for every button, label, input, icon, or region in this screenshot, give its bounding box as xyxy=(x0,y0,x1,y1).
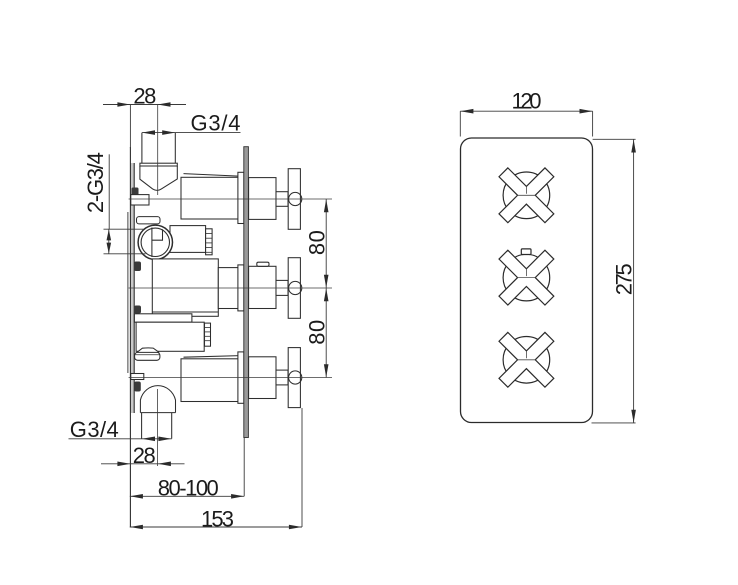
bottom outlet pipe xyxy=(141,413,143,439)
thermostat cap xyxy=(137,217,161,224)
lower ribbed adapter xyxy=(205,323,211,346)
top pipe centerline xyxy=(157,105,159,196)
lower connector block xyxy=(136,322,204,351)
plate stud screws xyxy=(132,188,142,392)
lower pivot hump xyxy=(137,348,159,353)
row-2 handle hub circle xyxy=(289,281,302,294)
dim G3/4 top leader xyxy=(142,130,241,135)
dimension texts left view xyxy=(70,84,330,532)
handle cross bottom xyxy=(499,332,554,387)
row centerlines xyxy=(129,199,332,378)
handle cross middle xyxy=(499,249,554,305)
dim 80-100 xyxy=(130,438,244,499)
svg-text:275: 275 xyxy=(612,263,637,295)
wall mounting plate (edge-on) xyxy=(128,147,134,528)
dim 80/80 vertical xyxy=(324,199,329,378)
thermostat housing xyxy=(170,226,206,253)
dimension texts right view xyxy=(512,88,637,295)
svg-text:80: 80 xyxy=(305,230,330,255)
svg-text:28: 28 xyxy=(133,443,156,468)
bottom outlet elbow dome xyxy=(140,386,175,413)
top inlet pipe xyxy=(140,133,177,191)
dim 120 xyxy=(460,109,592,137)
row-3 cartridge body xyxy=(181,352,288,403)
svg-text:G3/4: G3/4 xyxy=(70,417,119,442)
svg-text:28: 28 xyxy=(133,84,156,109)
front finishing plate (edge-on, grey) xyxy=(244,147,249,438)
svg-text:120: 120 xyxy=(512,88,542,113)
row-3 handle bar xyxy=(288,348,300,408)
dim 28 bottom xyxy=(101,462,185,467)
trim plate xyxy=(461,138,593,423)
handle cross top xyxy=(499,168,554,223)
dim 275 xyxy=(592,139,636,423)
lower pivot lug xyxy=(135,352,160,360)
row-3 handle hub circle xyxy=(289,371,302,384)
dim G3/4 bottom leader xyxy=(69,437,172,442)
row-1 cartridge body xyxy=(181,172,288,223)
dim 28 top xyxy=(103,102,186,148)
dim 153 xyxy=(130,408,302,529)
plate bracket bottom xyxy=(131,374,144,380)
row-1 handle hub circle xyxy=(289,192,302,205)
side port circle (2-G3/4) xyxy=(138,225,172,259)
thermostat ribbed adapter xyxy=(206,229,213,255)
lower connector bar xyxy=(134,314,192,322)
svg-text:80: 80 xyxy=(305,320,330,345)
dim 2-G3/4 leader xyxy=(104,154,146,254)
plate bracket top xyxy=(131,195,149,205)
row-1 handle bar xyxy=(288,169,300,230)
svg-text:80-100: 80-100 xyxy=(158,475,219,500)
bottom pipe centerline xyxy=(157,389,159,466)
row-2 handle bar xyxy=(288,258,300,319)
svg-text:2-G3/4: 2-G3/4 xyxy=(83,152,108,213)
svg-text:153: 153 xyxy=(201,506,234,531)
row-2 cartridge body xyxy=(152,259,288,316)
svg-text:G3/4: G3/4 xyxy=(191,111,241,136)
